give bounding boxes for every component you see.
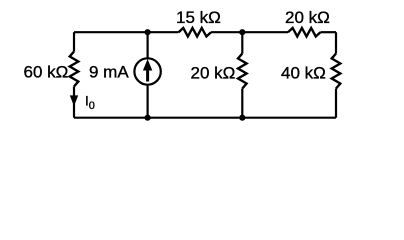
resistor R 20k top zigzag bbox=[288, 28, 320, 37]
wire bottom horizontal bbox=[74, 117, 336, 119]
svg-text:9 mA: 9 mA bbox=[89, 63, 129, 82]
svg-text:20 kΩ: 20 kΩ bbox=[191, 64, 236, 83]
svg-text:40 kΩ: 40 kΩ bbox=[281, 64, 326, 83]
current arrow I0 head bbox=[70, 95, 78, 106]
node junction bottom middle bbox=[239, 115, 245, 121]
svg-text:I0: I0 bbox=[85, 94, 95, 112]
wire middle vertical bottom bbox=[241, 89, 243, 118]
svg-text:60 kΩ: 60 kΩ bbox=[24, 63, 69, 82]
node junction bottom source bbox=[145, 115, 151, 121]
wire middle vertical top bbox=[241, 32, 243, 53]
wire right vertical top bbox=[335, 32, 337, 53]
resistor R 15k zigzag bbox=[179, 28, 211, 37]
wire left vertical bottom bbox=[73, 87, 75, 118]
node junction top source bbox=[145, 29, 151, 35]
wire top middle segment bbox=[211, 31, 288, 33]
wire top-left horizontal segment bbox=[74, 31, 179, 33]
wire source bottom lead bbox=[147, 85, 149, 118]
wire top-right horizontal segment bbox=[320, 31, 336, 33]
wire right vertical bottom bbox=[335, 89, 337, 118]
svg-text:20 kΩ: 20 kΩ bbox=[285, 8, 330, 27]
svg-text:15 kΩ: 15 kΩ bbox=[176, 8, 221, 27]
wire left vertical top bbox=[73, 32, 75, 51]
resistor R 60k zigzag bbox=[70, 52, 79, 87]
current source arrow bbox=[146, 69, 149, 82]
resistor R 40k zigzag bbox=[332, 54, 341, 89]
wire source top lead bbox=[147, 32, 149, 58]
resistor R 20k mid zigzag bbox=[238, 54, 247, 89]
current source U1 circle bbox=[134, 58, 160, 84]
node junction top middle bbox=[239, 29, 245, 35]
